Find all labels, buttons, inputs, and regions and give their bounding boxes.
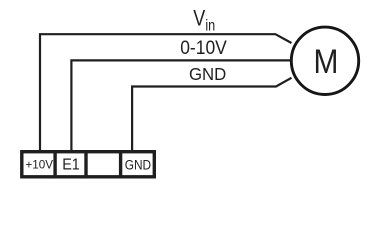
wire 0-10V: from E1 terminal up and right to motor [71, 60, 291, 151]
terminal block outer frame [22, 152, 155, 177]
svg-text:GND: GND [189, 64, 226, 84]
terminal divider 1 [53, 150, 56, 178]
svg-text:E1: E1 [62, 156, 80, 174]
svg-text:M: M [314, 42, 339, 80]
svg-text:+10V: +10V [25, 159, 53, 172]
svg-text:GND: GND [125, 157, 151, 173]
motor M1 circle [291, 27, 358, 94]
wire GND: from GND terminal up and right to motor [132, 78, 291, 151]
svg-text:Vin: Vin [193, 7, 215, 35]
svg-text:0-10V: 0-10V [180, 37, 227, 59]
terminal divider 3 [119, 150, 122, 178]
wire Vin: from +10V terminal up and right to motor [40, 34, 292, 151]
terminal divider 2 [84, 150, 87, 178]
